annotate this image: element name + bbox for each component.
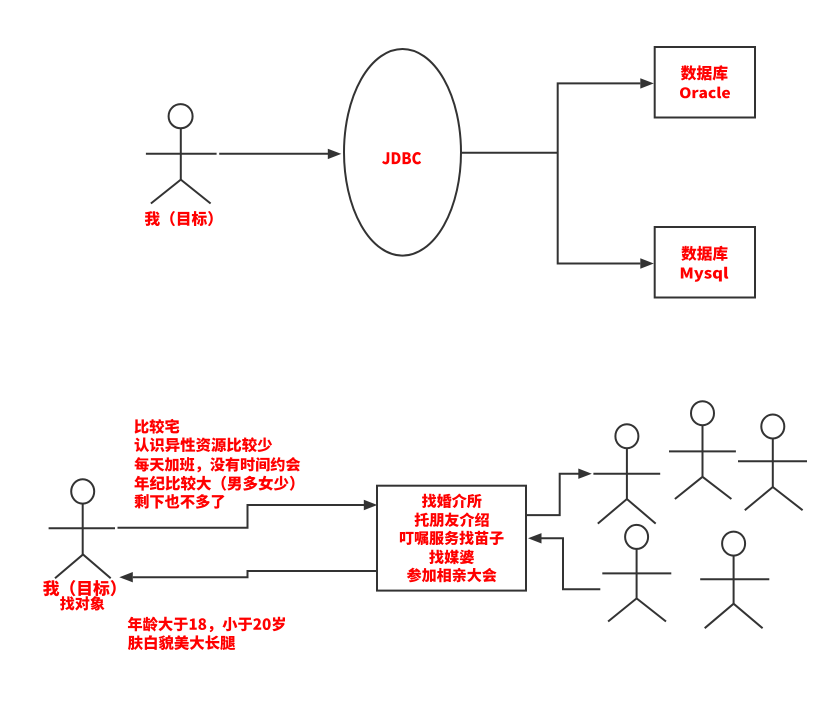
arrowhead into Mysql box: [640, 258, 654, 268]
box: database Mysql: [655, 227, 755, 298]
actor P1 arms: [593, 473, 660, 475]
actor P5 legs: [705, 604, 763, 629]
note: 年龄大于18，小于20岁: [128, 617, 285, 633]
note line 5: 剩下也不多了: [134, 494, 224, 509]
actor P3 body: [772, 438, 774, 487]
actor A2 arms: [49, 527, 115, 529]
actor A1 legs: [151, 180, 211, 204]
arrowhead back to actor A2: [119, 572, 133, 582]
box line 3: 叮嘱服务找苗子: [400, 531, 504, 545]
label: 我（目标） under actor A1: [145, 211, 213, 226]
actor P2 arms: [669, 450, 736, 452]
box line 4: 找媒婆: [429, 550, 474, 564]
actor A2 legs: [55, 555, 111, 579]
actor P2 legs: [675, 477, 732, 499]
actor P1 legs: [598, 499, 656, 524]
actor A2 (user 我 找对象) head: [71, 479, 94, 503]
box: database Oracle: [655, 47, 755, 118]
wire: junction branches to DB boxes: [558, 83, 641, 263]
use-case ellipse JDBC: [344, 49, 461, 256]
wire: matchmaking box back to actor A2: [133, 571, 377, 577]
actor P4 legs: [608, 598, 666, 621]
wire: box to candidate P1: [526, 474, 579, 515]
label: 数据库 in Oracle box: [681, 65, 728, 80]
actor P2 head: [691, 401, 714, 425]
actor A2 body: [82, 504, 84, 555]
actor P2 body: [702, 425, 704, 477]
actor A1 arms: [146, 153, 217, 155]
note line 2: 认识异性资源比较少: [135, 437, 273, 452]
actor P4 body: [636, 548, 638, 598]
actor P3 arms: [738, 460, 807, 462]
label: Mysql: [681, 267, 728, 282]
box: matchmaking actions: [377, 486, 526, 591]
actor P5 arms: [700, 578, 769, 580]
note line 3: 每天加班，没有时间约会: [135, 457, 301, 472]
arrowhead into matchmaking box: [364, 500, 378, 510]
actor A1 (user 我) head: [169, 104, 193, 128]
note: 肤白貌美大长腿: [128, 635, 235, 650]
actor P4 head: [625, 525, 648, 549]
arrowhead into JDBC ellipse: [328, 149, 342, 159]
actor P4 arms: [602, 572, 671, 574]
note line 1: 比较宅: [134, 419, 179, 434]
wire: candidate P4 back to box: [541, 538, 600, 589]
actor P1 body: [626, 448, 628, 499]
label: 我（目标） under actor A2: [43, 580, 116, 596]
box line 5: 参加相亲大会: [407, 568, 497, 583]
arrowhead into Oracle box: [640, 78, 654, 88]
wire: actor A2 to matchmaking box: [118, 505, 365, 528]
box line 2: 托朋友介绍: [415, 512, 489, 527]
actor P3 head: [761, 415, 784, 439]
note line 4: 年纪比较大（男多女少）: [134, 476, 294, 491]
actor P5 head: [722, 532, 745, 556]
actor P3 legs: [745, 487, 803, 510]
actor P5 body: [733, 555, 735, 604]
box line 1: 找婚介所: [422, 493, 482, 508]
label: 数据库 in Mysql box: [681, 246, 727, 261]
wire: actor A1 to JDBC ellipse: [219, 153, 328, 155]
actor A1 body: [180, 129, 182, 180]
arrowhead to candidate P1: [578, 469, 592, 479]
actor P1 head: [615, 424, 638, 448]
label: Oracle: [680, 87, 730, 99]
arrowhead return into box: [528, 533, 542, 543]
label: JDBC in ellipse: [382, 152, 421, 164]
wire: ellipse to junction: [461, 152, 558, 154]
label: 找对象: [60, 596, 105, 610]
